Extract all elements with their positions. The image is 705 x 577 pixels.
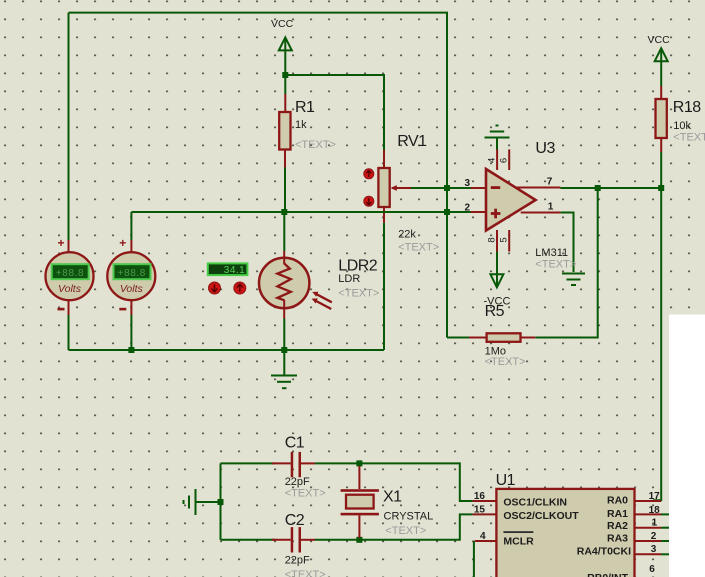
svg-text:6: 6 bbox=[499, 158, 510, 163]
svg-text:C1: C1 bbox=[285, 435, 305, 452]
wire RV1 wiper to node3 bbox=[411, 187, 447, 189]
wire C2 right to U1 pin15 bbox=[315, 514, 473, 539]
wire C2 left bbox=[221, 539, 276, 541]
svg-text:22pF: 22pF bbox=[285, 476, 310, 488]
junction R1/LDR/pin2 rail bbox=[281, 209, 287, 215]
ground left bbox=[184, 489, 196, 515]
resistor R1 bbox=[279, 94, 290, 168]
svg-text:<TEXT>: <TEXT> bbox=[398, 241, 439, 253]
wire VM2- vertical bbox=[130, 315, 132, 350]
junction node3 bbox=[444, 185, 450, 191]
wire U1 pin18 stub green bbox=[661, 513, 670, 515]
svg-text:1: 1 bbox=[548, 202, 554, 213]
power VCC top bbox=[271, 18, 294, 50]
svg-text:10k: 10k bbox=[673, 120, 691, 132]
junction C2/X1 bbox=[356, 537, 362, 543]
svg-text:RA1: RA1 bbox=[607, 508, 628, 520]
wire C1 right to U1 pin16 bbox=[315, 463, 473, 501]
svg-text:<TEXT>: <TEXT> bbox=[673, 132, 705, 144]
svg-text:MCLR: MCLR bbox=[503, 536, 534, 548]
wire R5 right to output column bbox=[535, 188, 597, 338]
button RV1 down bbox=[364, 196, 374, 206]
svg-text:Volts: Volts bbox=[120, 283, 144, 295]
svg-text:RA0: RA0 bbox=[607, 495, 628, 507]
op-amp U3 bbox=[471, 149, 560, 251]
svg-text:<TEXT>: <TEXT> bbox=[385, 525, 426, 537]
svg-text:2: 2 bbox=[651, 531, 657, 542]
svg-text:5: 5 bbox=[499, 237, 510, 242]
wire LDR bottom bbox=[283, 319, 285, 351]
wire U3 pin8 to -VCC arrow bbox=[496, 252, 498, 287]
wire U3 top ground stem bbox=[496, 139, 498, 151]
svg-text:4: 4 bbox=[480, 531, 486, 542]
svg-text:RA4/T0CKI: RA4/T0CKI bbox=[577, 546, 631, 558]
svg-text:34.1: 34.1 bbox=[224, 265, 245, 276]
svg-text:+: + bbox=[57, 236, 64, 250]
power VCC right bbox=[648, 34, 671, 61]
svg-text:C2: C2 bbox=[285, 512, 305, 529]
wire top rail to node3 column bbox=[69, 13, 448, 338]
button RV1 up bbox=[364, 169, 374, 179]
resistor R5 bbox=[469, 333, 535, 342]
svg-text:<TEXT>: <TEXT> bbox=[285, 569, 326, 577]
wire left column C1-C2 bbox=[220, 463, 222, 539]
svg-text:OSC2/CLKOUT: OSC2/CLKOUT bbox=[503, 510, 579, 522]
svg-text:3: 3 bbox=[651, 544, 657, 555]
svg-text:8: 8 bbox=[487, 237, 498, 242]
wire U1 pin1 stub green bbox=[661, 527, 670, 529]
capacitor C1 bbox=[272, 452, 315, 477]
junction output/R18 bbox=[658, 185, 664, 191]
svg-text:6: 6 bbox=[649, 564, 655, 575]
wire VM2+ vertical bbox=[130, 212, 132, 240]
wire VM1+ vertical to top rail bbox=[68, 13, 70, 240]
junction LDR/ground rail bbox=[281, 347, 287, 353]
svg-text:2: 2 bbox=[464, 203, 470, 214]
svg-text:3: 3 bbox=[464, 178, 470, 189]
resistor R18 bbox=[656, 86, 667, 152]
junction node2 bbox=[444, 209, 450, 215]
wire node3 to U3 pin3 bbox=[447, 187, 471, 189]
svg-text:<TEXT>: <TEXT> bbox=[338, 288, 379, 300]
wire main ground stem bbox=[283, 350, 285, 375]
svg-text:VCC: VCC bbox=[271, 18, 294, 30]
wire R1 bottom to pin2 rail bbox=[284, 168, 286, 213]
crystal X1 bbox=[341, 466, 379, 538]
svg-text:RV1: RV1 bbox=[397, 133, 427, 150]
white region bottom right bbox=[669, 315, 705, 577]
svg-text:1: 1 bbox=[652, 518, 658, 529]
svg-text:Volts: Volts bbox=[58, 283, 82, 295]
wire R18 VCC stem bbox=[660, 49, 662, 86]
wire VCC to R1 bbox=[284, 39, 286, 95]
svg-text:OSC1/CLKIN: OSC1/CLKIN bbox=[503, 497, 567, 509]
potentiometer RV1 bbox=[378, 150, 411, 223]
display light level 34.1 bbox=[208, 263, 248, 275]
junction output/R5 bbox=[595, 185, 601, 191]
ground U3 top bbox=[485, 126, 510, 138]
wire U1 pin3 stub green bbox=[661, 553, 670, 555]
svg-text:+88.8: +88.8 bbox=[56, 268, 84, 279]
wire node2 down to R5 left bbox=[447, 337, 469, 339]
power -VCC arrow bbox=[484, 274, 511, 307]
wire RV1 bottom to ground rail bbox=[383, 223, 385, 350]
wire LDR top bbox=[283, 212, 285, 251]
svg-text:15: 15 bbox=[474, 504, 486, 515]
svg-text:22k: 22k bbox=[398, 229, 416, 241]
svg-text:16: 16 bbox=[474, 491, 486, 502]
svg-text:VCC: VCC bbox=[648, 34, 671, 46]
junction VCC/R1/RV1 bbox=[282, 72, 288, 78]
svg-text:<TEXT>: <TEXT> bbox=[285, 488, 326, 500]
photoresistor LDR2 bbox=[259, 251, 332, 319]
wire U1 pin2 stub green bbox=[661, 540, 670, 542]
svg-text:U1: U1 bbox=[496, 472, 516, 489]
svg-text:1k: 1k bbox=[295, 119, 307, 131]
voltmeter VM1 bbox=[46, 236, 94, 315]
svg-text:LDR2: LDR2 bbox=[338, 258, 378, 275]
wire VM1- vertical bbox=[68, 315, 70, 350]
ground main bbox=[271, 376, 297, 389]
svg-text:R18: R18 bbox=[673, 99, 701, 116]
svg-text:+: + bbox=[119, 236, 126, 250]
wire C1 left bbox=[221, 462, 276, 464]
svg-text:<TEXT>: <TEXT> bbox=[295, 139, 336, 151]
wire U3 output to R18 column bbox=[560, 187, 661, 189]
wire ground rail bottom bbox=[69, 349, 385, 351]
svg-text:+88.8: +88.8 bbox=[118, 268, 146, 279]
wire left ground stem bbox=[196, 501, 221, 503]
svg-text:X1: X1 bbox=[383, 489, 402, 506]
svg-text:4: 4 bbox=[487, 158, 498, 163]
svg-text:LM311: LM311 bbox=[535, 247, 568, 259]
svg-text:CRYSTAL: CRYSTAL bbox=[384, 511, 434, 523]
junction left ground bbox=[218, 499, 224, 505]
svg-text:7: 7 bbox=[547, 177, 553, 188]
wire pin2 rail horizontal bbox=[131, 211, 447, 213]
svg-text:17: 17 bbox=[649, 491, 661, 502]
svg-text:U3: U3 bbox=[535, 140, 555, 157]
wire node2 to U3 pin2 bbox=[447, 211, 471, 213]
svg-text:<TEXT>: <TEXT> bbox=[535, 259, 576, 271]
wire VCC node to RV1 top bbox=[285, 75, 384, 150]
junction C1/X1 bbox=[356, 460, 362, 466]
svg-text:RB0/INT: RB0/INT bbox=[587, 572, 628, 577]
svg-text:RA2: RA2 bbox=[607, 520, 628, 532]
svg-text:R5: R5 bbox=[485, 303, 505, 320]
pin name MCLR bbox=[503, 531, 534, 547]
wire U3 pin1 to ground bbox=[560, 213, 573, 273]
ground U3 pin1 bbox=[562, 274, 585, 286]
button LDR up bbox=[234, 282, 246, 294]
voltmeter VM2 bbox=[107, 236, 155, 315]
svg-text:RA3: RA3 bbox=[607, 533, 628, 545]
svg-text:LDR: LDR bbox=[338, 273, 360, 285]
wire pin2 rail over RV1 pin crossing bbox=[379, 211, 389, 213]
svg-text:22pF: 22pF bbox=[285, 555, 310, 567]
svg-text:R1: R1 bbox=[295, 99, 315, 116]
junction VM2/ground rail bbox=[128, 347, 134, 353]
svg-text:<TEXT>: <TEXT> bbox=[485, 356, 526, 368]
wire R18 bottom down to U1 pin17 bbox=[653, 152, 661, 500]
svg-text:18: 18 bbox=[649, 505, 661, 516]
wire MCLR down bbox=[473, 541, 475, 577]
capacitor C2 bbox=[272, 527, 315, 552]
button LDR down bbox=[209, 282, 221, 294]
microcontroller U1 bbox=[473, 489, 661, 577]
